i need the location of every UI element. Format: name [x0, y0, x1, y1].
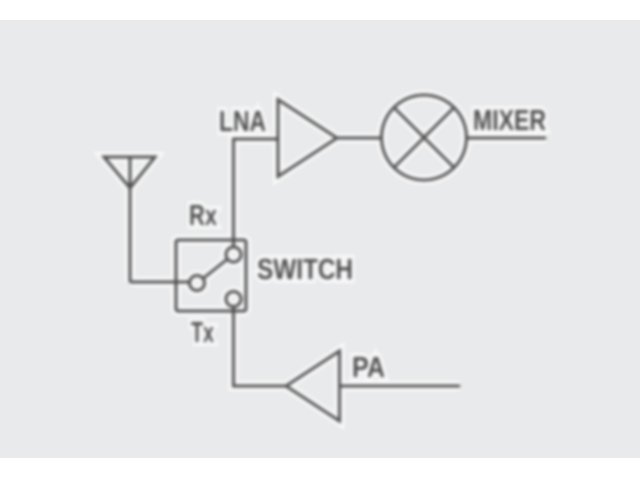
svg-text:PA: PA	[352, 352, 385, 384]
svg-text:SWITCH: SWITCH	[257, 254, 353, 286]
svg-text:Tx: Tx	[191, 317, 214, 349]
svg-text:Rx: Rx	[189, 200, 217, 232]
svg-text:LNA: LNA	[219, 106, 266, 138]
svg-text:MIXER: MIXER	[473, 105, 546, 137]
